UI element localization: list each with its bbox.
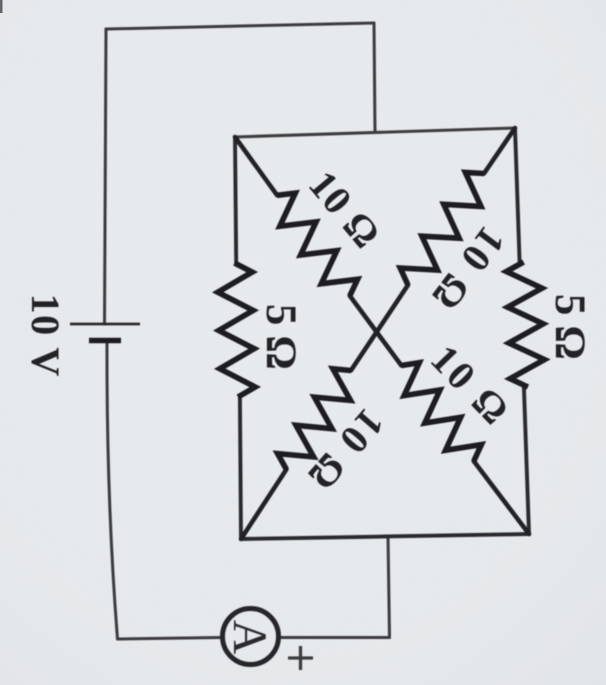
diagonal wire D1 resistor to BR corner bbox=[474, 461, 529, 534]
bridge right edge lower wire bbox=[524, 387, 529, 534]
wire battery bottom down left side bbox=[107, 343, 118, 639]
wire ammeter to right riser bbox=[280, 636, 390, 639]
diagonal wire TR corner to resistor bbox=[484, 128, 515, 174]
resistor 10 ohm upper-right diagonal bbox=[400, 172, 484, 285]
resistor 5 ohm right bridge arm bbox=[506, 262, 544, 387]
bridge top edge wire bbox=[235, 128, 515, 137]
resistor 10 ohm lower-right diagonal bbox=[401, 363, 481, 461]
diagonal wire D2 through crossing bbox=[351, 285, 408, 371]
bridge left edge upper wire bbox=[235, 137, 236, 263]
resistor 10 ohm upper-left diagonal bbox=[277, 193, 357, 296]
bridge right edge upper wire bbox=[515, 128, 520, 262]
resistor 10 ohm lower-left diagonal bbox=[278, 369, 351, 470]
wire riser to bridge bottom node bbox=[388, 537, 390, 638]
wire top horizontal bbox=[106, 23, 374, 29]
bridge bottom edge wire bbox=[241, 534, 529, 539]
battery B1 short thick plate bbox=[89, 338, 121, 344]
diagonal wire D2 resistor to BL corner bbox=[241, 469, 286, 539]
diagonal wire D1 through crossing bbox=[350, 296, 402, 366]
svg-text:5Ω: 5Ω bbox=[546, 294, 593, 370]
wire down to bridge top node bbox=[374, 23, 375, 132]
page edge sliver top-left bbox=[0, 0, 3, 13]
resistor 5 ohm left bridge arm bbox=[218, 263, 255, 397]
ammeter A1 circle bbox=[223, 609, 279, 665]
svg-text:5Ω: 5Ω bbox=[257, 304, 304, 380]
bridge left edge lower wire bbox=[240, 397, 241, 539]
plus sign polarity bbox=[288, 646, 313, 670]
diagonal wire TL corner to resistor bbox=[235, 137, 277, 195]
svg-text:A: A bbox=[223, 620, 276, 655]
wire bottom to ammeter bbox=[118, 638, 222, 640]
wire battery top to top-left corner bbox=[105, 29, 107, 324]
svg-text:10 V: 10 V bbox=[23, 294, 68, 378]
battery B1 long plate bbox=[70, 323, 140, 326]
